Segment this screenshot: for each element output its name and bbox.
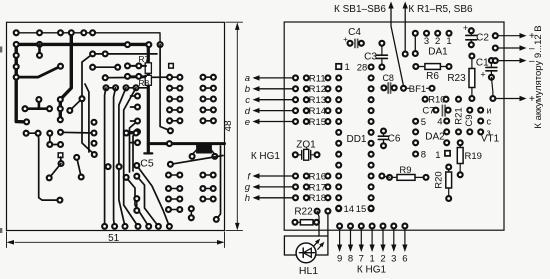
svg-text:R21: R21	[454, 107, 465, 124]
resistor R6	[418, 66, 424, 68]
svg-text:C4: C4	[348, 27, 361, 38]
scan artifact marks left edge	[0, 47, 2, 53]
wire fan curve 1	[105, 88, 106, 227]
jumper pad pairs grid C lower	[169, 174, 180, 176]
wire diagonal to pad	[49, 164, 61, 178]
svg-text:14: 14	[344, 204, 355, 215]
wire R22 to HL1 left	[317, 211, 319, 236]
dimension extension lines right	[226, 21, 243, 23]
svg-text:и: и	[487, 106, 492, 116]
wire bottom arrow pin 3	[393, 229, 395, 246]
svg-text:b: b	[245, 84, 250, 95]
svg-text:BF1: BF1	[409, 84, 426, 95]
svg-text:К R1–R5, SB6: К R1–R5, SB6	[408, 4, 473, 15]
pads left bus column	[14, 53, 19, 58]
pads of T-bar node	[23, 106, 28, 111]
svg-text:+: +	[463, 23, 468, 33]
wire row 53.9	[93, 53, 157, 55]
svg-text:7: 7	[359, 254, 364, 265]
via pad with diagonal branch	[70, 99, 82, 111]
svg-text:R17: R17	[309, 182, 326, 193]
resistor R7 body on trace	[145, 63, 151, 74]
svg-text:C8: C8	[382, 73, 394, 83]
wire thick vertical bus from top row	[60, 33, 71, 120]
svg-text:C3: C3	[364, 52, 377, 63]
LED HL1 symbol	[296, 243, 316, 263]
wire stub right from pad	[61, 131, 95, 134]
pads middle column feeds	[131, 95, 138, 97]
svg-text:C5: C5	[140, 158, 154, 170]
wire bottom arrow pin 2	[382, 229, 384, 246]
svg-text:+: +	[480, 70, 485, 80]
svg-text:1: 1	[345, 62, 350, 73]
left PCB copper-side board outline 51x48	[7, 22, 225, 230]
svg-text:c: c	[245, 95, 250, 106]
jumper pad pairs grid A	[170, 76, 180, 78]
right component-side board outline	[284, 22, 504, 230]
pad C5 legs	[190, 154, 195, 159]
square pad with via chain lower-left	[58, 153, 63, 158]
wire C1 to plus node	[491, 77, 493, 98]
IC DD1 pin1 square pad	[336, 64, 341, 69]
dimension line 48	[236, 29, 238, 223]
svg-text:DA2: DA2	[425, 132, 445, 143]
svg-text:R15: R15	[309, 117, 326, 128]
wire R22 to HL1 right	[327, 213, 329, 236]
wire bottom arrow pin 1	[371, 229, 373, 246]
wire R7-R8 vertical trace	[147, 45, 150, 153]
svg-text:d: d	[245, 106, 251, 117]
wire L-node	[50, 133, 61, 144]
via pair vertical lower middle	[136, 199, 138, 211]
svg-text:R13: R13	[309, 95, 326, 106]
pad on thick trace	[167, 141, 172, 146]
svg-text:1: 1	[435, 150, 440, 161]
svg-text:DD1: DD1	[346, 134, 366, 145]
resistor R12 with output arrow b	[258, 88, 295, 90]
wire long vertical from row B with diagonal to pad	[160, 45, 170, 131]
dimension line 51	[15, 241, 217, 243]
svg-text:a: a	[245, 73, 250, 84]
resistor R13 with output arrow c	[258, 99, 295, 101]
pads diagonal node	[58, 64, 63, 69]
square pad top right region	[169, 64, 174, 69]
svg-text:51: 51	[108, 233, 120, 244]
IC DD1 left pin column	[336, 75, 341, 80]
wire fan curve 2	[114, 88, 116, 227]
resistor R8 body on trace	[145, 75, 151, 85]
wire battery terminal –	[493, 58, 498, 63]
IC DA1	[413, 31, 418, 36]
via pad with diagonal to bottom pad	[126, 177, 149, 226]
svg-text:К аккумулятору 9...12 В: К аккумулятору 9...12 В	[533, 25, 544, 128]
resistor R11 with output arrow a	[258, 77, 295, 79]
wire fan bundle from via column	[130, 121, 138, 172]
wire bottom-right diagonal	[170, 156, 223, 165]
wire fan curve 3	[119, 88, 126, 227]
wire fan bundle 6	[133, 132, 138, 171]
wire to SB1-SB6 with up arrow	[388, 2, 393, 9]
pads DD1 bottom row 14-15	[336, 206, 341, 211]
via pad thick diagonal to corner pad	[137, 166, 170, 227]
resistor R18 with output arrow h	[258, 197, 295, 199]
svg-text:К SB1–SB6: К SB1–SB6	[334, 4, 386, 15]
svg-text:2: 2	[435, 36, 440, 47]
wire C5 leg right	[211, 149, 215, 155]
svg-text:C6: C6	[388, 134, 401, 145]
wire row 77.7 long to pair grid	[105, 76, 169, 79]
svg-text:2: 2	[380, 254, 385, 265]
LED HL1 holder box	[284, 236, 328, 255]
svg-text:VT1: VT1	[481, 134, 500, 145]
wire bottom arrow pin 7	[360, 229, 362, 246]
wire to R1-R5 with up arrow	[403, 2, 408, 9]
wire row 67.2	[93, 66, 118, 68]
jumper pad pairs grid D lower	[203, 174, 213, 176]
svg-text:R7: R7	[138, 54, 149, 64]
svg-text:C9: C9	[464, 114, 475, 126]
svg-text:5: 5	[421, 117, 426, 128]
wire DA1 pin to pad	[414, 36, 416, 53]
svg-text:К HG1: К HG1	[251, 151, 281, 162]
IC DD1 right pin column	[369, 65, 374, 70]
resistor R16 with output arrow f	[258, 175, 295, 177]
svg-text:8: 8	[348, 254, 353, 265]
svg-text:48: 48	[223, 120, 234, 132]
capacitor C6	[383, 133, 385, 136]
svg-text:6: 6	[402, 254, 407, 265]
svg-text:9: 9	[337, 254, 342, 265]
svg-text:e: e	[245, 117, 250, 128]
svg-text:R12: R12	[309, 84, 326, 95]
via pad with diagonal to bottom pad 2	[137, 176, 159, 226]
wire fan curve 4	[124, 88, 138, 227]
resistor R14 with output arrow d	[258, 110, 295, 112]
svg-text:g: g	[245, 182, 251, 193]
wire battery terminal +	[493, 33, 498, 38]
svg-text:3: 3	[391, 254, 396, 265]
wire curved branch down	[82, 54, 94, 155]
wire thick ground bus horizontal	[16, 43, 150, 46]
svg-text:4: 4	[437, 117, 442, 128]
svg-text:R14: R14	[309, 106, 326, 117]
wire vertical pad pair	[190, 209, 192, 218]
pads bottom row	[102, 224, 107, 229]
wire feeds into R7 R8 trace	[128, 65, 147, 67]
svg-text:15: 15	[356, 204, 367, 215]
svg-text:R22: R22	[294, 207, 313, 218]
wire bottom arrow pin 6	[404, 229, 406, 246]
wire bottom arrow pin 9	[339, 229, 341, 246]
LED HL1 emission arrows	[314, 243, 317, 246]
svg-text:К HG1: К HG1	[357, 265, 387, 276]
pads left mid column	[92, 120, 97, 125]
wire DD1 to R9	[382, 176, 390, 177]
resistor R15 with output arrow e	[258, 121, 295, 123]
wire bottom arrow pin 8	[350, 229, 352, 246]
capacitor C5 plate bar	[144, 152, 152, 154]
svg-text:1: 1	[369, 254, 374, 265]
wire thick short pair	[126, 132, 136, 135]
wire battery terminal –	[493, 46, 498, 51]
svg-text:R11: R11	[309, 73, 326, 84]
wire diagonal pair	[77, 157, 82, 177]
dimension extension lines bottom	[6, 232, 8, 248]
wire pair row 133 with long vertical to pad	[26, 133, 60, 200]
svg-text:R23: R23	[447, 73, 466, 84]
wire branch diagonal lower-left	[16, 66, 60, 77]
svg-text:R16: R16	[309, 171, 326, 182]
svg-text:1: 1	[446, 36, 451, 47]
svg-text:R20: R20	[434, 171, 445, 188]
pads top rows	[14, 30, 19, 35]
jumper pad pairs grid B	[203, 76, 213, 78]
svg-text:C2: C2	[476, 33, 489, 44]
wire row 87.8 pairs	[106, 87, 116, 89]
svg-text:3: 3	[424, 36, 429, 47]
wire thick left edge bus	[16, 44, 26, 122]
wire parallel vertical	[85, 84, 89, 152]
svg-text:8: 8	[421, 150, 426, 161]
svg-text:DA1: DA1	[428, 47, 448, 58]
svg-text:HL1: HL1	[299, 265, 318, 277]
svg-text:h: h	[245, 193, 250, 204]
svg-text:R19: R19	[465, 151, 482, 162]
svg-text:R6: R6	[426, 71, 439, 82]
pads mid standalone	[106, 164, 111, 169]
wire C5 leg left	[192, 149, 197, 155]
svg-text:28: 28	[357, 62, 368, 73]
svg-text:с: с	[487, 117, 492, 127]
wire stub middle vertical	[38, 44, 41, 55]
wire T-bar with stub	[25, 107, 50, 110]
svg-text:R18: R18	[309, 193, 326, 204]
wire battery terminal +	[490, 96, 495, 101]
transistor VT1 pads	[478, 108, 483, 113]
wire row A thin	[16, 33, 160, 45]
capacitor C5 black plate rectangle	[196, 144, 212, 153]
wire thick horizontal to right edge	[148, 142, 224, 145]
resistor R17 with output arrow g	[258, 186, 295, 188]
wire curve along right edge	[216, 146, 220, 219]
node pad wire R1-R5	[403, 52, 408, 57]
